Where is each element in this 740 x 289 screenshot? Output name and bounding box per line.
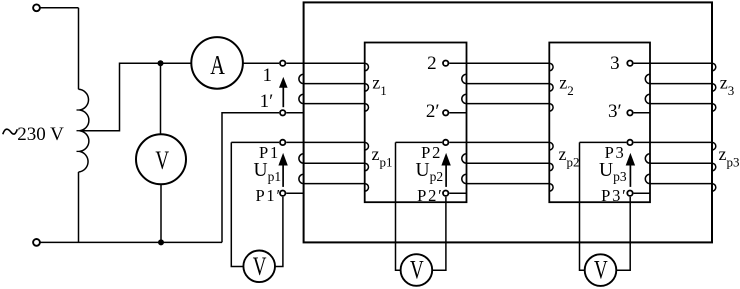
svg-text:V: V bbox=[155, 146, 169, 175]
svg-text:1′: 1′ bbox=[260, 91, 274, 112]
svg-text:V: V bbox=[253, 252, 267, 281]
svg-text:3′: 3′ bbox=[608, 101, 622, 122]
svg-text:230 V: 230 V bbox=[17, 124, 64, 145]
svg-text:V: V bbox=[410, 256, 424, 285]
svg-text:1: 1 bbox=[263, 65, 273, 86]
svg-text:P1′: P1′ bbox=[255, 186, 281, 205]
svg-text:P2: P2 bbox=[421, 143, 442, 162]
svg-text:P1: P1 bbox=[259, 143, 280, 162]
svg-text:V: V bbox=[594, 256, 608, 285]
svg-text:P3′: P3′ bbox=[601, 186, 627, 205]
svg-text:P3: P3 bbox=[605, 143, 626, 162]
svg-text:A: A bbox=[210, 50, 225, 81]
svg-text:2′: 2′ bbox=[426, 101, 440, 122]
svg-text:2: 2 bbox=[427, 53, 437, 74]
svg-text:3: 3 bbox=[610, 53, 620, 74]
svg-text:P2′: P2′ bbox=[417, 186, 443, 205]
